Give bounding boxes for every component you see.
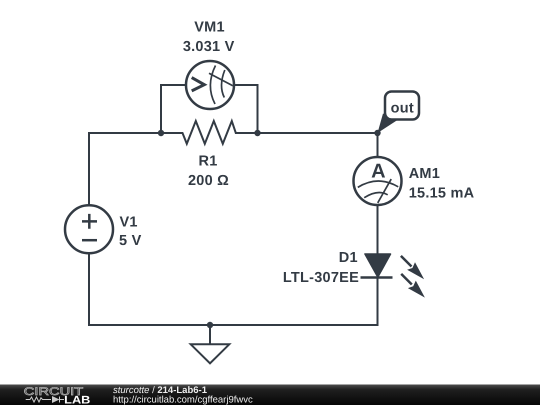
svg-text:A: A [371, 161, 385, 183]
svg-text:V1: V1 [120, 215, 138, 231]
svg-text:out: out [391, 101, 414, 117]
voltmeter VM1 needle [209, 73, 233, 86]
voltage source V1 body [65, 205, 113, 253]
voltmeter VM1 scale arc 1 [210, 66, 215, 105]
svg-text:15.15 mA: 15.15 mA [409, 185, 475, 201]
ammeter AM1 scale arc 1 [358, 181, 398, 187]
voltmeter VM1 body [186, 61, 234, 109]
svg-text:200 Ω: 200 Ω [188, 173, 229, 189]
LED D1 triangle [365, 254, 391, 277]
ammeter AM1 body [354, 157, 402, 205]
svg-text:VM1: VM1 [194, 20, 225, 36]
svg-text:LTL-307EE: LTL-307EE [283, 270, 359, 286]
node flag out tail [378, 114, 398, 134]
voltage source V1 minus sign [82, 239, 97, 242]
footer logo resistor diode glyph [26, 397, 64, 403]
wire VM1 right branch [234, 85, 258, 133]
voltmeter VM1 chevron [192, 78, 205, 91]
wire top-left horizontal [89, 133, 183, 205]
svg-text:3.031 V: 3.031 V [183, 39, 235, 55]
ground symbol [191, 325, 230, 363]
node out junction [374, 130, 380, 136]
wire left vertical V1 bottom lead [89, 254, 210, 326]
svg-text:AM1: AM1 [409, 166, 440, 182]
svg-text:http://circuitlab.com/cgffearj: http://circuitlab.com/cgffearj9fwvc [113, 394, 253, 405]
voltmeter VM1 scale arc 2 [222, 70, 225, 98]
LED D1 light arrow 2 [401, 274, 425, 298]
LED D1 light arrow 1 [401, 256, 424, 279]
voltage source V1 plus sign [82, 214, 97, 229]
node flag out box [385, 92, 419, 120]
wire top-right horizontal [236, 132, 378, 134]
wire bottom horizontal [210, 278, 378, 326]
wire ammeter bottom to LED anode [377, 205, 379, 254]
node ground junction [207, 322, 213, 328]
node junction right of R1 [254, 130, 260, 136]
node junction left of R1 [158, 130, 164, 136]
wire VM1 left branch [161, 85, 186, 133]
LED D1 cathode bar [361, 276, 393, 279]
svg-text:LAB: LAB [64, 395, 90, 405]
ammeter AM1 needle [378, 179, 392, 203]
svg-text:R1: R1 [198, 154, 217, 170]
ammeter AM1 scale arc 2 [364, 192, 388, 197]
resistor R1 [161, 121, 258, 144]
svg-text:D1: D1 [339, 250, 358, 266]
svg-text:5 V: 5 V [119, 233, 142, 249]
footer bar [0, 385, 540, 405]
wire node out to ammeter top [377, 133, 379, 158]
